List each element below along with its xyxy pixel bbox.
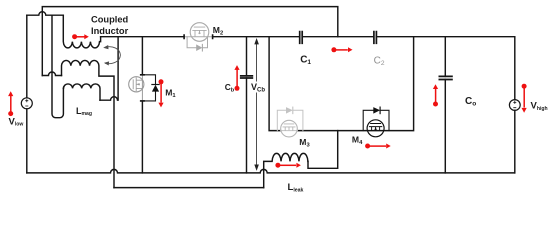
transistor M1 MOSFET circle (grey) bbox=[129, 75, 144, 101]
red dot+arrow M4 current bbox=[365, 144, 370, 149]
red arrow+dot Co (up) bbox=[433, 102, 438, 107]
capacitor Co plates bbox=[439, 76, 452, 79]
transistor M2 grey wire segment bbox=[184, 36, 213, 38]
capacitor Cb plates bbox=[241, 76, 253, 78]
transistor M4 body-diode loop (black) bbox=[363, 110, 389, 130]
wire main bus node A bbox=[101, 36, 185, 38]
svg-text:C1: C1 bbox=[300, 54, 311, 66]
svg-text:Lleak: Lleak bbox=[288, 182, 304, 193]
red current/voltage annotations bbox=[8, 34, 527, 168]
transistor M4 MOSFET circle (black) bbox=[367, 120, 384, 137]
red dot+arrow Lleak current bbox=[275, 163, 280, 168]
red dot+arrow Vhigh (down) bbox=[522, 84, 527, 89]
pin ticks M1 bbox=[141, 75, 144, 101]
pin ticks M2 bbox=[184, 35, 213, 38]
coupled inductor winding 1 (humps down) bbox=[63, 15, 100, 48]
svg-text:M4: M4 bbox=[352, 135, 363, 147]
wire top line from winding2-left to node between C1 and C2 bbox=[42, 7, 338, 76]
inductor Lleak (humps up) bbox=[264, 153, 308, 187]
svg-text:Inductor: Inductor bbox=[91, 26, 129, 36]
wire main bus node D (C2 to right rail corner) bbox=[378, 37, 515, 173]
white knockout behind VCb label bbox=[250, 82, 266, 93]
capacitor Co wire bbox=[444, 37, 446, 173]
wire winding3 right jog to bus vertical (hop over x=114) bbox=[100, 37, 118, 100]
svg-text:Vhigh: Vhigh bbox=[531, 101, 548, 112]
transistor M3 body-diode loop (light grey) bbox=[277, 107, 303, 131]
voltage source Vlow bbox=[21, 98, 32, 109]
wire bridge left leg and bridge rail bbox=[269, 37, 414, 131]
transistor M3 MOSFET circle (light grey) bbox=[281, 120, 298, 137]
coupled inductor winding 2 (humps up) bbox=[62, 60, 115, 187]
diode of M1 (pointing up) bbox=[152, 85, 159, 92]
capacitor Cb wire bbox=[246, 37, 248, 173]
voltage source Vhigh bbox=[509, 100, 520, 111]
svg-text:Cb: Cb bbox=[225, 82, 235, 93]
wire main bus node C (C1 to C2) bbox=[303, 36, 373, 38]
wire main bus node B (M2 right to C1) bbox=[213, 36, 299, 38]
red dot+arrow M1 current (down) bbox=[159, 79, 164, 84]
red arrow+dot Vlow (up) bbox=[8, 111, 13, 116]
wire left rail Vlow bbox=[26, 15, 28, 173]
capacitor C1 bbox=[300, 32, 303, 44]
capacitor C2 bbox=[374, 32, 377, 44]
svg-text:Coupled: Coupled bbox=[91, 15, 129, 25]
transistor M1 body-diode loop bbox=[142, 75, 155, 101]
red arrow+dot Cb (up) bbox=[235, 86, 240, 91]
inductor Lmag winding 3 (humps up) bbox=[63, 84, 100, 100]
svg-text:Co: Co bbox=[465, 96, 476, 108]
wire lower rail (winding2 right to Lleak left) bbox=[114, 187, 264, 189]
svg-text:Vlow: Vlow bbox=[9, 116, 24, 127]
svg-text:C2: C2 bbox=[374, 55, 385, 67]
diode of M4 (pointing right) bbox=[373, 107, 380, 114]
svg-text:M3: M3 bbox=[299, 137, 310, 149]
red dot+arrow winding1 current bbox=[72, 34, 77, 39]
annotation arrows coupled inductor (double curved arrow) bbox=[103, 45, 120, 66]
wire bridge mid T down to Lleak right end bbox=[308, 131, 338, 169]
transistor M2 body-diode loop (grey) bbox=[187, 37, 207, 51]
red dot+arrow C1 current bbox=[331, 47, 336, 52]
voltage arrow VCb (thin, double headed) bbox=[254, 38, 259, 171]
svg-text:M1: M1 bbox=[165, 88, 176, 100]
transistor M2 MOSFET circle (grey) bbox=[190, 23, 209, 42]
wire vertical2 Vlow node down to Lmag left bbox=[52, 15, 63, 118]
svg-text:M2: M2 bbox=[213, 25, 223, 37]
transistor M3 grey wire segment bbox=[281, 130, 298, 132]
wire Vlow plus to winding1 left (hop over x=42.3) bbox=[27, 12, 64, 15]
wire winding2-left jog to top-line vertical (hop over x=52) bbox=[42, 72, 61, 75]
svg-text:Lmag: Lmag bbox=[76, 106, 92, 117]
wire bottom rail (Vlow minus to Vhigh minus, hops at 114 and 263.7) bbox=[27, 169, 515, 172]
transistor M1 wire (bus to bottom rail) bbox=[141, 37, 143, 173]
